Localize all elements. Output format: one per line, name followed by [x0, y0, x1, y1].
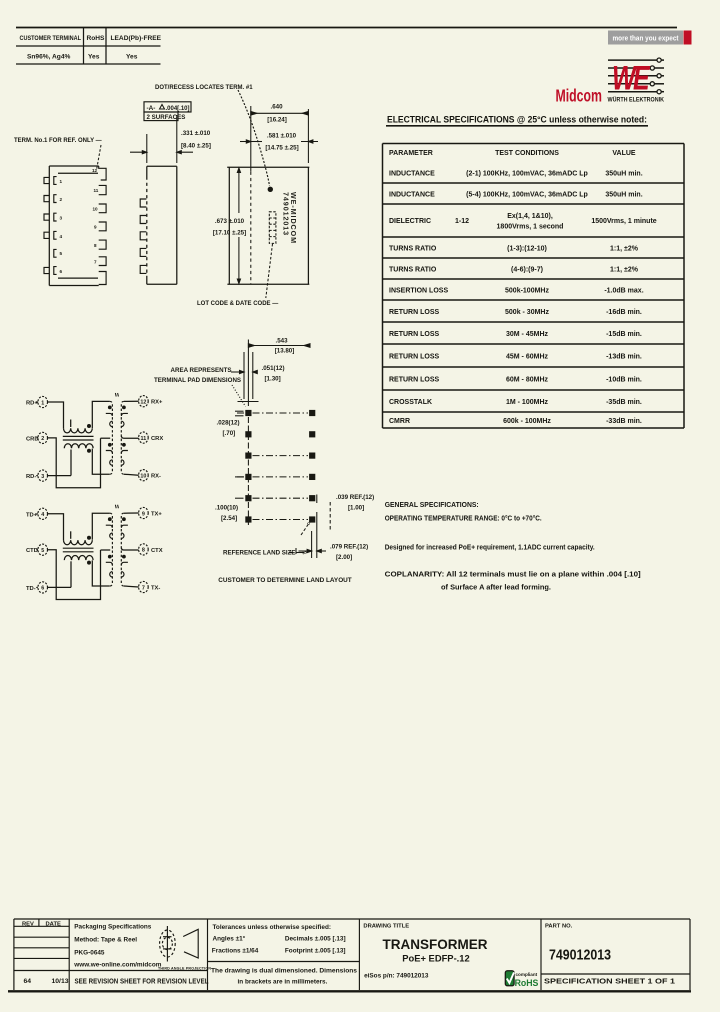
- svg-text:TERM. No.1 FOR REF. ONLY —: TERM. No.1 FOR REF. ONLY —: [14, 138, 102, 144]
- svg-text:1:1, ±2%: 1:1, ±2%: [610, 267, 639, 274]
- svg-text:-16dB min.: -16dB min.: [606, 309, 642, 316]
- dimension .051(12) [1.30] pad width: [231, 352, 259, 402]
- pin 7 circle: [139, 581, 149, 592]
- svg-text:10/13: 10/13: [52, 978, 69, 985]
- customer terminal table text: [20, 35, 162, 61]
- wire choke tail to pin 6: [70, 561, 72, 587]
- svg-text:9: 9: [142, 511, 145, 517]
- primary winding line: [110, 513, 113, 586]
- dimension .581 [14.75]: [240, 140, 318, 143]
- wire secondary center to pin 8: [121, 548, 138, 550]
- svg-text:1:1, ±2%: 1:1, ±2%: [610, 246, 639, 253]
- primary winding line: [110, 401, 113, 474]
- leader from TERM No.1 note to top view: [97, 145, 102, 170]
- secondary stub upper: [121, 413, 128, 416]
- wire secondary top to pin 12: [124, 400, 139, 402]
- svg-text:2: 2: [60, 197, 63, 202]
- pin 4 circle: [38, 508, 48, 519]
- svg-text:6: 6: [60, 269, 63, 274]
- svg-text:.004[.10]: .004[.10]: [166, 106, 190, 112]
- svg-text:4: 4: [41, 512, 44, 518]
- svg-text:GENERAL SPECIFICATIONS:: GENERAL SPECIFICATIONS:: [385, 502, 479, 509]
- svg-text:Packaging Specifications: Packaging Specifications: [74, 924, 152, 931]
- secondary polarity dots: [122, 406, 126, 410]
- svg-text:INSERTION LOSS: INSERTION LOSS: [389, 288, 448, 295]
- svg-text:3: 3: [41, 474, 44, 480]
- wire secondary center to pin 11: [121, 436, 138, 438]
- svg-text:RETURN LOSS: RETURN LOSS: [389, 377, 440, 384]
- svg-text:[14.75 ±.25]: [14.75 ±.25]: [265, 145, 298, 152]
- svg-text:7: 7: [142, 585, 145, 591]
- wire secondary top to pin 9: [124, 512, 139, 514]
- svg-text:DRAWING TITLE: DRAWING TITLE: [363, 924, 409, 930]
- primary hump lower: [110, 572, 113, 577]
- secondary winding line: [121, 401, 124, 474]
- svg-text:RETURN LOSS: RETURN LOSS: [389, 309, 440, 316]
- banner red square: [684, 31, 692, 45]
- leader from DOT/RECESS note to recess dot: [238, 90, 270, 186]
- end view (right) package body: [227, 167, 309, 284]
- svg-text:(1-3):(12-10): (1-3):(12-10): [507, 246, 547, 253]
- secondary stub lower: [121, 562, 128, 565]
- svg-text:INDUCTANCE: INDUCTANCE: [389, 192, 435, 199]
- svg-text:DIELECTRIC: DIELECTRIC: [389, 218, 431, 225]
- wire choke bottom to winding bottom: [92, 449, 110, 475]
- svg-text:eiSos p/n: 749012013: eiSos p/n: 749012013: [364, 973, 429, 980]
- choke core: [63, 435, 94, 437]
- svg-text:Midcom: Midcom: [556, 86, 603, 106]
- title block bottom heavy rule: [8, 990, 691, 992]
- svg-text:60M - 80MHz: 60M - 80MHz: [506, 377, 549, 384]
- svg-text:CTD: CTD: [26, 548, 38, 554]
- svg-text:RETURN LOSS: RETURN LOSS: [389, 354, 440, 361]
- svg-text:[8.40 ±.25]: [8.40 ±.25]: [181, 143, 211, 150]
- svg-text:.079 REF.(12): .079 REF.(12): [330, 544, 368, 551]
- datum feature box -A-: [144, 102, 191, 112]
- svg-text:RoHS: RoHS: [87, 35, 106, 42]
- pin 5 circle: [38, 544, 48, 555]
- svg-text:600k - 100MHz: 600k - 100MHz: [503, 418, 551, 425]
- svg-text:RETURN LOSS: RETURN LOSS: [389, 331, 440, 338]
- choke polarity dot top: [87, 424, 91, 428]
- pad row centerlines: [237, 413, 308, 520]
- svg-text:more than you expect: more than you expect: [613, 34, 679, 43]
- title block outer frame: [14, 919, 690, 990]
- svg-text:350uH min.: 350uH min.: [605, 192, 642, 199]
- svg-text:.051(12): .051(12): [262, 365, 285, 372]
- secondary polarity dots: [122, 517, 126, 521]
- svg-text:[2.54]: [2.54]: [221, 515, 237, 522]
- core ticks: [114, 505, 117, 509]
- pin 6 circle: [38, 582, 48, 593]
- svg-text:TRANSFORMER: TRANSFORMER: [383, 937, 488, 952]
- svg-text:[1.30]: [1.30]: [265, 376, 281, 383]
- wire pin 4 to choke: [48, 514, 64, 540]
- secondary hump upper: [121, 533, 124, 538]
- primary stub lower: [106, 451, 113, 454]
- svg-text:WE: WE: [612, 60, 651, 98]
- transformer T2 (transmit pair): [26, 505, 163, 600]
- wire pin 2 to center tap: [48, 438, 101, 488]
- transformer T1 (receive pair): [26, 393, 163, 488]
- primary hump upper: [110, 533, 113, 538]
- svg-text:REFERENCE LAND SIZE: REFERENCE LAND SIZE: [223, 550, 296, 557]
- svg-text:Decimals ±.005 [.13]: Decimals ±.005 [.13]: [285, 936, 346, 943]
- svg-text:Angles ±1°: Angles ±1°: [213, 935, 246, 943]
- svg-text:-13dB min.: -13dB min.: [606, 354, 642, 361]
- svg-text:INDUCTANCE: INDUCTANCE: [389, 171, 435, 178]
- svg-text:Sn96%, Ag4%: Sn96%, Ag4%: [27, 54, 70, 61]
- svg-text:[16.24]: [16.24]: [267, 117, 287, 124]
- electrical table frame: [383, 144, 685, 429]
- revision table lines: [14, 919, 690, 990]
- svg-text:749012013: 749012013: [549, 948, 611, 964]
- pin 8 circle: [139, 544, 149, 555]
- dimension .079 REF.(12) [2.00]: [296, 512, 326, 558]
- note arrow: [289, 552, 294, 554]
- svg-text:-15dB min.: -15dB min.: [606, 331, 642, 338]
- side view terminals: [140, 199, 146, 273]
- choke polarity dot bottom: [87, 561, 91, 565]
- svg-text:TD-: TD-: [26, 586, 36, 592]
- secondary hump lower: [121, 572, 124, 577]
- svg-text:(5-4) 100KHz, 100mVAC, 36mADC: (5-4) 100KHz, 100mVAC, 36mADC Lp: [466, 192, 588, 199]
- pin 2 circle: [38, 432, 48, 443]
- WE logo lines: [608, 60, 664, 92]
- wire choke tail to pin 3: [70, 450, 72, 476]
- svg-text:PART NO.: PART NO.: [545, 924, 573, 930]
- dotted leader from note to pad 1: [232, 385, 246, 407]
- tolerances: [211, 924, 357, 986]
- svg-text:RoHS: RoHS: [515, 977, 539, 988]
- svg-text:2: 2: [41, 436, 44, 442]
- svg-text:TURNS RATIO: TURNS RATIO: [389, 246, 437, 253]
- svg-text:7: 7: [94, 260, 97, 265]
- svg-text:12: 12: [92, 168, 98, 173]
- terminal #1 recess dot: [268, 187, 273, 192]
- WE logo node circles: [650, 58, 661, 94]
- svg-text:CRX: CRX: [151, 436, 163, 442]
- svg-text:[1.00]: [1.00]: [348, 505, 364, 512]
- top view (left) package body outline: [49, 166, 98, 286]
- svg-text:AREA REPRESENTS: AREA REPRESENTS: [171, 367, 232, 374]
- svg-text:4: 4: [60, 234, 63, 239]
- svg-text:Ex(1,4, 1&10),: Ex(1,4, 1&10),: [507, 213, 553, 220]
- svg-text:www.we-online.com/midcom: www.we-online.com/midcom: [73, 962, 161, 969]
- dimension .673 [17.10]: [237, 168, 240, 284]
- svg-text:[13.80]: [13.80]: [275, 348, 295, 355]
- svg-text:CROSSTALK: CROSSTALK: [389, 399, 432, 406]
- svg-text:PoE+ EDFP-.12: PoE+ EDFP-.12: [402, 953, 469, 964]
- svg-text:Designed for increased PoE+ re: Designed for increased PoE+ requirement,…: [385, 545, 595, 552]
- common-mode choke bottom winding: [64, 444, 93, 449]
- third angle projection symbol: [160, 926, 199, 962]
- svg-text:1800Vrms, 1 second: 1800Vrms, 1 second: [497, 224, 564, 231]
- svg-text:-1.0dB max.: -1.0dB max.: [604, 288, 643, 295]
- top view pin numbers: [60, 168, 99, 274]
- wire secondary bottom to pin 7: [124, 586, 139, 587]
- dimension .640 [16.24]: [251, 106, 309, 172]
- wire pin 5 to center tap: [48, 550, 101, 600]
- svg-text:TURNS RATIO: TURNS RATIO: [389, 267, 437, 274]
- svg-text:5: 5: [60, 251, 63, 256]
- svg-text:45M - 60MHz: 45M - 60MHz: [506, 354, 549, 361]
- common-mode choke top winding: [64, 540, 93, 545]
- svg-text:TEST CONDITIONS: TEST CONDITIONS: [495, 150, 559, 157]
- primary stub upper: [106, 525, 113, 528]
- wire choke bottom to winding bottom: [92, 560, 110, 586]
- svg-text:2 SURFACES: 2 SURFACES: [147, 114, 186, 121]
- svg-text:500k - 30MHz: 500k - 30MHz: [505, 309, 549, 316]
- datum note box 2 SURFACES: [144, 112, 178, 121]
- svg-text:1: 1: [41, 400, 44, 406]
- svg-text:11: 11: [141, 436, 147, 442]
- pin 3 circle: [38, 470, 48, 481]
- svg-text:500k-100MHz: 500k-100MHz: [505, 288, 549, 295]
- svg-text:WÜRTH ELEKTRONIK: WÜRTH ELEKTRONIK: [608, 95, 665, 104]
- svg-text:1: 1: [60, 179, 63, 184]
- choke polarity dot top: [87, 536, 91, 540]
- wire center tap: [101, 437, 111, 439]
- svg-text:(2-1) 100KHz, 100mVAC, 36mADC: (2-1) 100KHz, 100mVAC, 36mADC Lp: [466, 171, 588, 178]
- top view right-side terminal tabs: [99, 166, 106, 285]
- pin 1 circle: [38, 396, 48, 407]
- svg-text:Footprint ±.005 [.13]: Footprint ±.005 [.13]: [285, 948, 346, 955]
- svg-text:10: 10: [93, 207, 99, 212]
- more than you expect banner: [608, 31, 683, 45]
- leader from lot code box to note: [266, 244, 273, 298]
- svg-text:REV: REV: [22, 921, 34, 927]
- secondary hump upper: [121, 421, 124, 426]
- svg-text:.331 ±.010: .331 ±.010: [181, 130, 211, 137]
- primary polarity dots: [108, 406, 112, 410]
- wire choke top to winding top: [92, 401, 110, 428]
- dimension .100(10) [2.54]: [235, 477, 244, 498]
- svg-text:RX-: RX-: [151, 474, 161, 480]
- primary stub lower: [106, 562, 113, 565]
- svg-text:RD-: RD-: [26, 474, 36, 480]
- svg-text:Yes: Yes: [88, 54, 100, 61]
- svg-text:-A-: -A-: [147, 105, 156, 112]
- pad column centerline: [247, 417, 249, 527]
- svg-text:.100(10): .100(10): [215, 505, 238, 512]
- svg-text:749012013: 749012013: [282, 192, 291, 236]
- svg-text:TX-: TX-: [151, 586, 160, 592]
- electrical table text: [389, 150, 657, 425]
- wire choke top to winding top: [92, 513, 110, 540]
- svg-text:CMRR: CMRR: [389, 418, 410, 425]
- svg-text:PKG-0645: PKG-0645: [74, 950, 105, 957]
- secondary winding line: [121, 513, 124, 586]
- customer terminal table frame: [16, 28, 161, 65]
- svg-text:The drawing is dual dimensione: The drawing is dual dimensioned. Dimensi…: [211, 968, 357, 975]
- svg-text:1M - 100MHz: 1M - 100MHz: [506, 399, 549, 406]
- choke core: [63, 547, 94, 549]
- svg-text:ELECTRICAL SPECIFICATIONS @ 25: ELECTRICAL SPECIFICATIONS @ 25°C unless …: [387, 115, 647, 125]
- svg-text:-33dB min.: -33dB min.: [606, 418, 642, 425]
- svg-text:1500Vrms, 1 minute: 1500Vrms, 1 minute: [591, 218, 656, 225]
- svg-text:DATE: DATE: [46, 921, 61, 927]
- svg-text:TX+: TX+: [151, 512, 162, 518]
- svg-text:.673 ±.010: .673 ±.010: [215, 218, 245, 225]
- land pads left column: [245, 410, 251, 523]
- dimension .028(12) [.70]: [235, 411, 244, 416]
- general specifications text: [385, 502, 641, 592]
- svg-text:8: 8: [94, 243, 97, 248]
- secondary hump lower: [121, 460, 124, 465]
- svg-text:64: 64: [24, 978, 32, 985]
- core ticks: [114, 393, 117, 397]
- top view left-side terminals: [44, 177, 57, 275]
- svg-text:.581 ±.010: .581 ±.010: [267, 132, 297, 139]
- svg-text:Yes: Yes: [126, 54, 138, 61]
- svg-text:.039 REF.(12): .039 REF.(12): [336, 494, 374, 501]
- lot/date code dashed box: [269, 212, 276, 244]
- svg-text:8: 8: [142, 548, 145, 554]
- svg-text:12: 12: [140, 400, 146, 406]
- pin 11 circle: [139, 432, 149, 443]
- svg-text:VALUE: VALUE: [612, 150, 636, 157]
- svg-text:CRD: CRD: [26, 436, 39, 442]
- primary polarity dots: [108, 517, 112, 521]
- svg-text:CTX: CTX: [151, 548, 163, 554]
- svg-text:30M - 45MHz: 30M - 45MHz: [506, 331, 549, 338]
- svg-text:TD+: TD+: [26, 512, 38, 518]
- primary hump upper: [110, 421, 113, 426]
- svg-text:10: 10: [140, 474, 146, 480]
- svg-text:RX+: RX+: [151, 400, 163, 406]
- svg-text:-10dB min.: -10dB min.: [606, 377, 642, 384]
- svg-text:(4-6):(9-7): (4-6):(9-7): [511, 267, 543, 274]
- primary hump lower: [110, 460, 113, 465]
- svg-text:.028(12): .028(12): [217, 420, 240, 427]
- svg-text:.640: .640: [270, 104, 283, 111]
- svg-text:Fractions ±1/64: Fractions ±1/64: [212, 948, 259, 955]
- svg-text:SEE REVISION SHEET FOR REVISIO: SEE REVISION SHEET FOR REVISION LEVEL: [75, 977, 209, 986]
- wire pin 1 to choke: [48, 402, 64, 428]
- wire secondary bottom to pin 10: [124, 474, 139, 475]
- wire pin 3 to choke: [48, 475, 72, 477]
- dimension .039 REF.(12) [1.00]: [317, 495, 330, 531]
- svg-text:.543: .543: [275, 338, 288, 345]
- svg-text:CUSTOMER TO DETERMINE LAND LAY: CUSTOMER TO DETERMINE LAND LAYOUT: [218, 577, 351, 584]
- packaging info: [73, 924, 161, 969]
- svg-text:RD+: RD+: [26, 401, 38, 407]
- svg-text:OPERATING TEMPERATURE RANGE: 0: OPERATING TEMPERATURE RANGE: 0°C to +70°…: [385, 515, 542, 523]
- svg-text:LEAD(Pb)-FREE: LEAD(Pb)-FREE: [111, 35, 162, 42]
- svg-text:-35dB min.: -35dB min.: [606, 399, 642, 406]
- svg-text:11: 11: [94, 188, 99, 193]
- wire pin 6 to choke: [48, 586, 72, 588]
- svg-text:COPLANARITY: All 12 terminals: COPLANARITY: All 12 terminals must lie o…: [385, 572, 641, 579]
- svg-text:TERMINAL PAD DIMENSIONS: TERMINAL PAD DIMENSIONS: [154, 377, 241, 384]
- svg-text:CUSTOMER TERMINAL: CUSTOMER TERMINAL: [20, 35, 82, 42]
- pin 9 circle: [139, 507, 149, 518]
- svg-text:3: 3: [60, 216, 63, 221]
- svg-text:5: 5: [41, 548, 44, 554]
- svg-text:PARAMETER: PARAMETER: [389, 150, 433, 157]
- svg-text:Tolerances unless otherwise sp: Tolerances unless otherwise specified:: [213, 924, 332, 931]
- leader from note to bottom-right pad: [301, 523, 310, 536]
- secondary stub lower: [121, 451, 128, 454]
- svg-text:SPECIFICATION SHEET 1 OF 1: SPECIFICATION SHEET 1 OF 1: [544, 979, 675, 986]
- wire center tap: [101, 549, 111, 551]
- secondary stub upper: [121, 525, 128, 528]
- svg-text:Method: Tape & Reel: Method: Tape & Reel: [74, 937, 137, 944]
- RoHS compliant logo: [505, 971, 538, 988]
- common-mode choke bottom winding: [64, 556, 93, 561]
- common-mode choke top winding: [64, 428, 93, 433]
- land pads right column: [309, 410, 315, 523]
- svg-text:1-12: 1-12: [455, 218, 469, 225]
- pin 10 circle: [139, 470, 149, 481]
- svg-text:350uH min.: 350uH min.: [605, 171, 642, 178]
- svg-text:6: 6: [41, 586, 44, 592]
- svg-text:[2.00]: [2.00]: [336, 554, 352, 561]
- svg-text:[.70]: [.70]: [223, 430, 236, 437]
- svg-text:9: 9: [94, 225, 97, 230]
- dimension .331 [8.40]: [130, 115, 193, 163]
- svg-text:THIRD ANGLE PROJECTION: THIRD ANGLE PROJECTION: [158, 967, 211, 971]
- svg-text:LOT CODE & DATE CODE —: LOT CODE & DATE CODE —: [197, 301, 278, 307]
- side view (middle) package body: [147, 166, 177, 284]
- pin 12 circle: [139, 396, 149, 407]
- svg-text:[17.10 ±.25]: [17.10 ±.25]: [213, 230, 246, 237]
- sheet top rule: [16, 27, 677, 29]
- primary stub upper: [106, 413, 113, 416]
- dimension .543 [13.80]: [248, 340, 310, 407]
- svg-text:in brackets are in millimeters: in brackets are in millimeters.: [238, 979, 328, 986]
- svg-text:of Surface A after lead formin: of Surface A after lead forming.: [441, 585, 551, 592]
- choke polarity dot bottom: [87, 449, 91, 453]
